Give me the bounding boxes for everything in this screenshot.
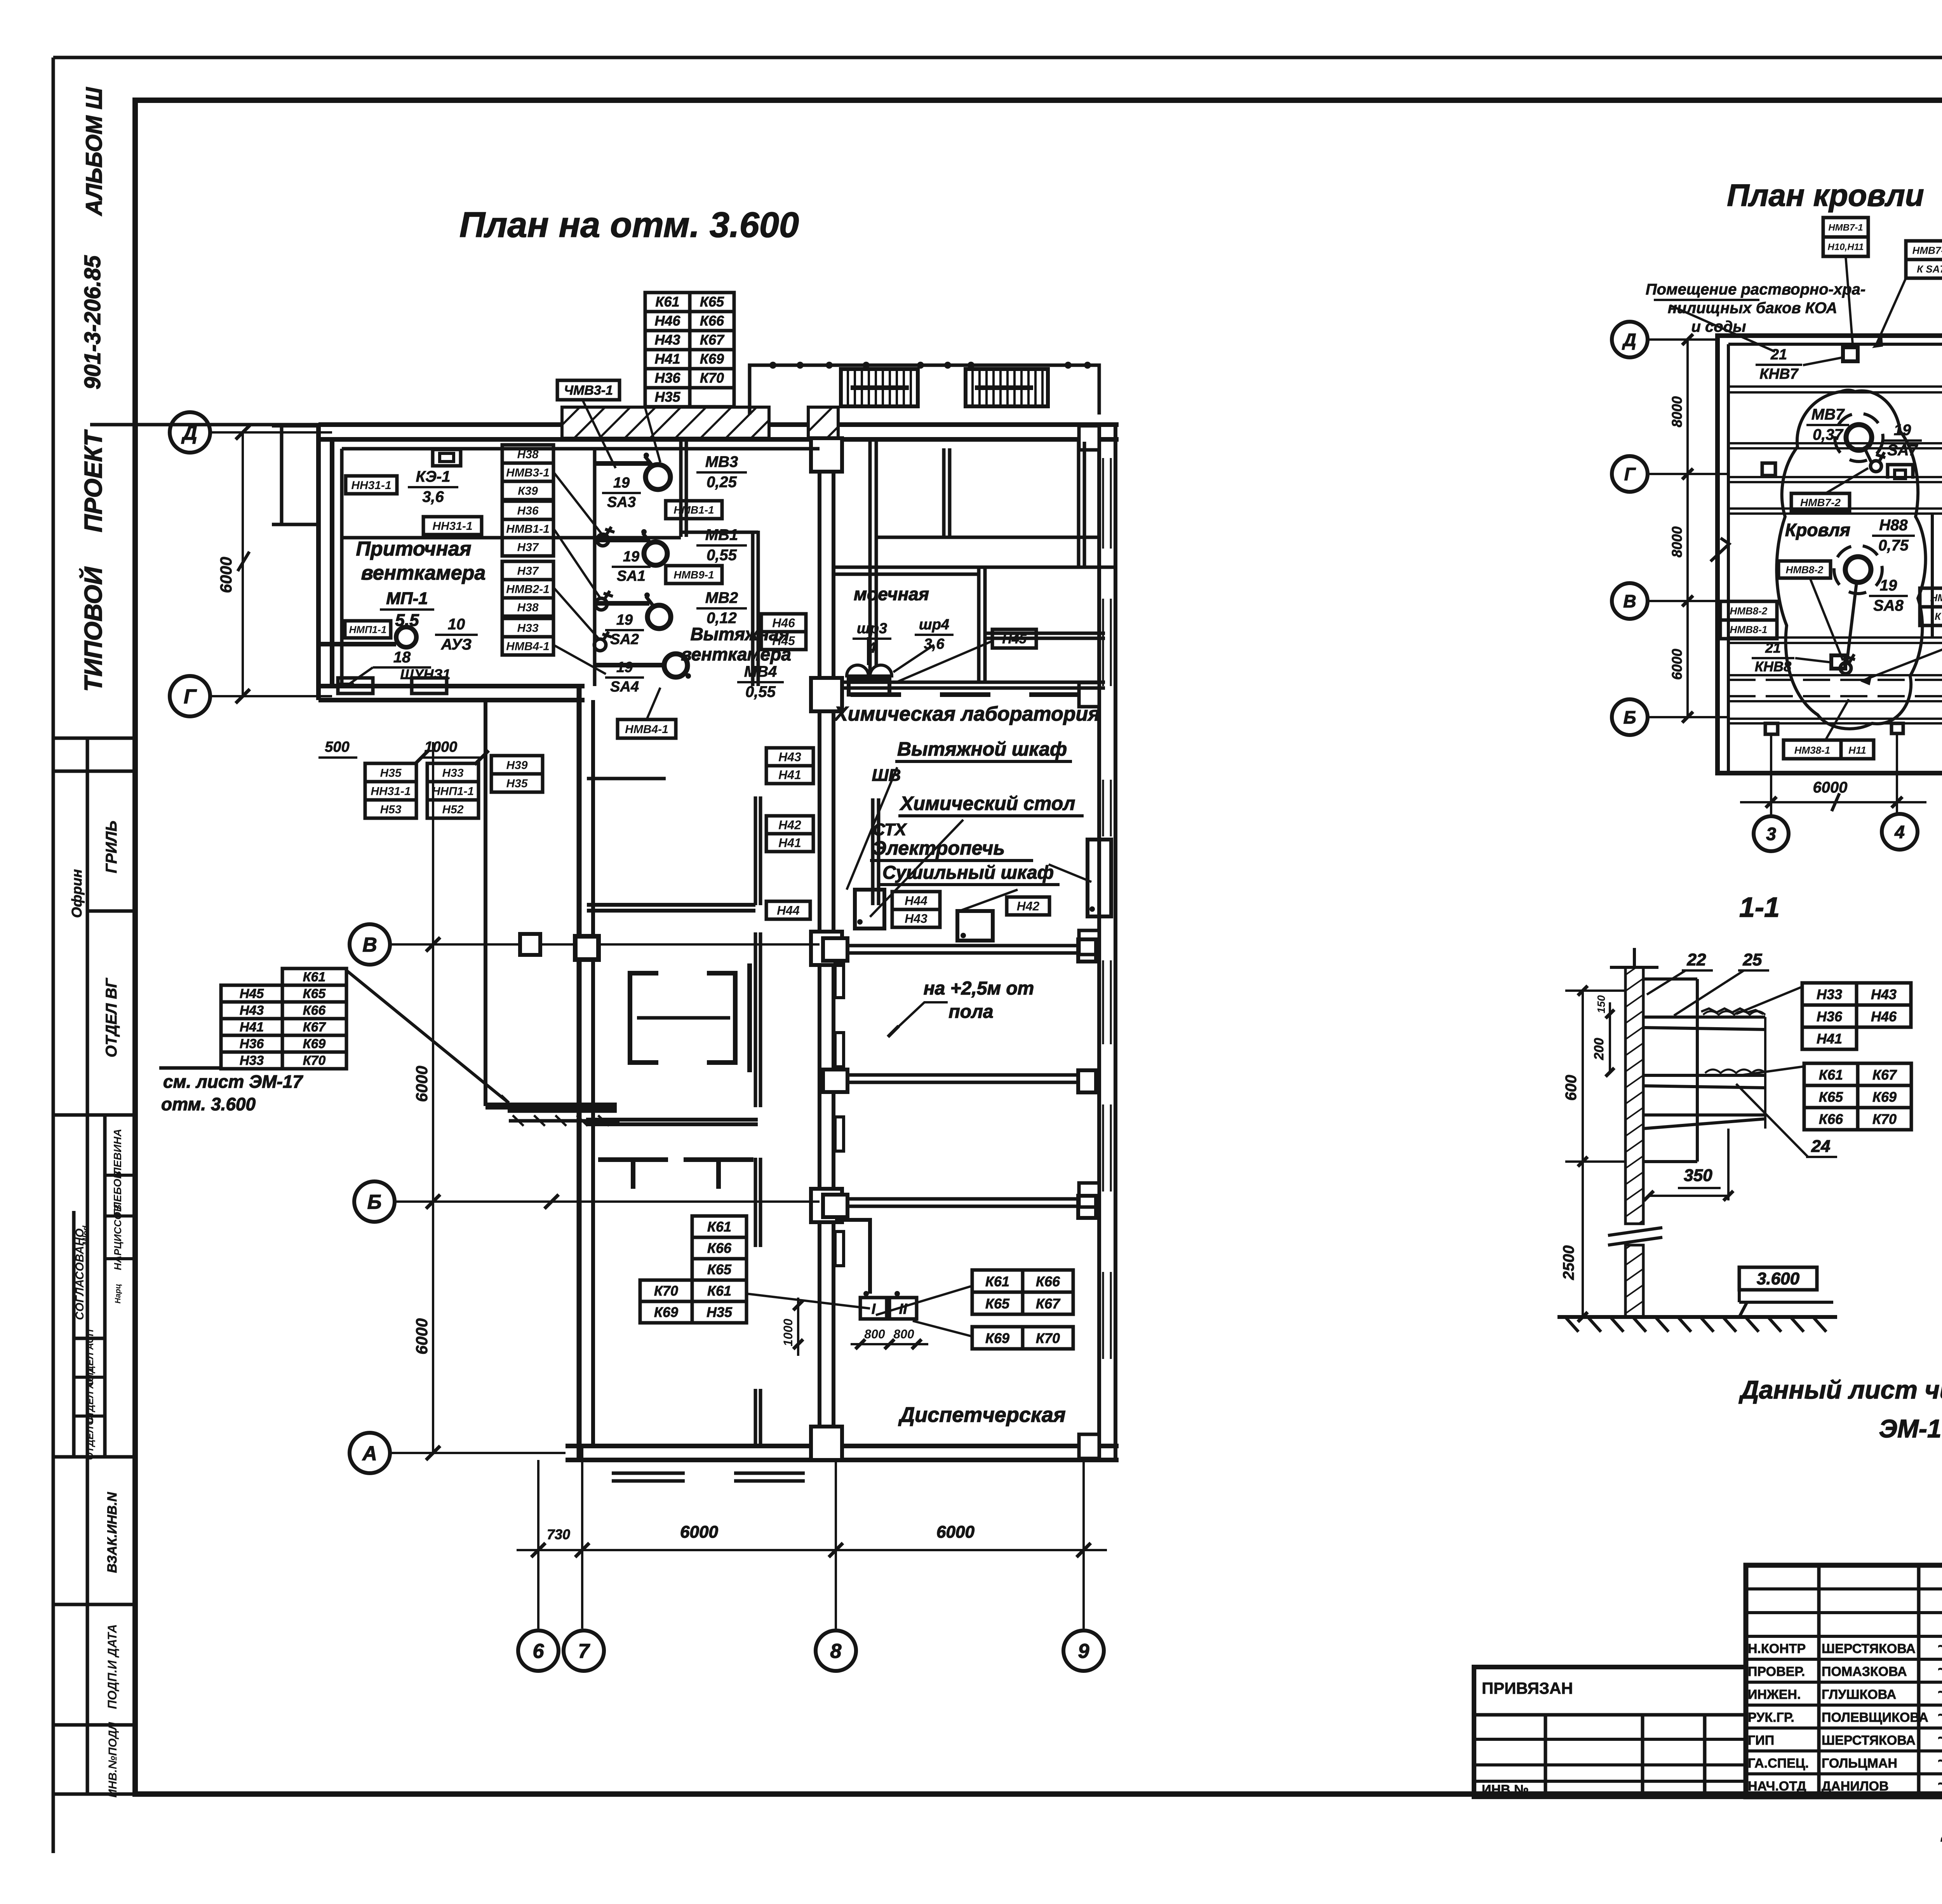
svg-text:~: ~: [1937, 1752, 1942, 1770]
label box НМВ9-1: [666, 566, 722, 584]
svg-text:ИНВ.№: ИНВ.№: [1482, 1782, 1529, 1797]
svg-text:Кровля: Кровля: [1785, 520, 1850, 540]
axis 3: [1754, 816, 1789, 851]
svg-text:К39: К39: [518, 484, 538, 497]
svg-text:Н37: Н37: [517, 564, 539, 577]
svg-text:К70: К70: [303, 1053, 326, 1068]
box НМ38-1 Н11: [1784, 740, 1841, 759]
vent room partition horizontal jog: [681, 531, 758, 534]
label box НМП1-1: [345, 621, 391, 638]
svg-text:шр3: шр3: [857, 620, 887, 637]
svg-text:Н33: Н33: [240, 1053, 264, 1068]
svg-text:ЩУНЗ1: ЩУНЗ1: [400, 666, 450, 682]
dim 1000 vertical: [797, 1298, 799, 1356]
svg-text:К70: К70: [1872, 1111, 1897, 1127]
vent room inner left wall: [593, 449, 597, 686]
left dim line Г-В-Б-А: [432, 742, 434, 1453]
svg-text:ПРИВЯЗАН: ПРИВЯЗАН: [1482, 1679, 1573, 1697]
svg-text:SA3: SA3: [607, 494, 636, 510]
door sill marks bottom wall: [612, 1472, 685, 1475]
svg-text:7: 7: [578, 1640, 590, 1663]
entry platform top-left: [280, 426, 284, 524]
svg-text:6000: 6000: [680, 1523, 718, 1542]
hatched wall section 1: [562, 407, 769, 438]
label box НМВ4-1: [618, 719, 676, 738]
svg-text:Н53: Н53: [380, 803, 401, 816]
title block left columns: [1817, 1565, 1821, 1797]
table Н33/ННП1-1/Н52: [427, 763, 479, 782]
svg-text:8: 8: [830, 1640, 842, 1663]
svg-text:НН31-1: НН31-1: [371, 785, 411, 798]
roof fan МВ8: [1845, 557, 1871, 582]
svg-text:SA8: SA8: [1873, 597, 1904, 614]
partition below K61 table: [586, 1118, 758, 1122]
svg-text:Н35: Н35: [506, 777, 528, 790]
svg-text:Н36: Н36: [1817, 1009, 1843, 1024]
table НМВ7-1/К SA7: [1906, 241, 1942, 260]
table Н39/Н35: [491, 756, 543, 774]
svg-text:Химическая лаборатория: Химическая лаборатория: [833, 703, 1100, 725]
svg-text:отм. 3.600: отм. 3.600: [161, 1094, 256, 1114]
right wall pilaster blocks: [1079, 426, 1099, 450]
svg-text:К61: К61: [1819, 1067, 1843, 1083]
svg-text:Н45: Н45: [240, 986, 264, 1001]
svg-text:19: 19: [1880, 577, 1897, 594]
svg-text:9: 9: [1078, 1640, 1089, 1663]
svg-text:Н.КОНТР: Н.КОНТР: [1748, 1641, 1806, 1656]
big cable table left: [282, 969, 346, 985]
svg-text:Помещение растворно-хра-: Помещение растворно-хра-: [1646, 281, 1865, 298]
svg-text:3.600: 3.600: [1757, 1269, 1800, 1288]
bottom axis verticals: [537, 1460, 539, 1629]
svg-text:КНВ7: КНВ7: [1759, 366, 1799, 382]
svg-text:Данный лист читать совместно с: Данный лист читать совместно с листами: [1738, 1375, 1942, 1404]
dim 200 150: [1609, 1002, 1611, 1072]
left wall lower: [577, 686, 582, 1460]
table К70/К61 К69/Н35: [640, 1280, 692, 1301]
cable run above plan: [750, 365, 1099, 415]
bell symbols: [847, 665, 868, 676]
roof vent shaft vertical: [1931, 514, 1934, 638]
svg-text:6000: 6000: [412, 1318, 431, 1354]
svg-text:2500: 2500: [1560, 1246, 1577, 1280]
svg-text:К66: К66: [1819, 1111, 1843, 1127]
furniture T marks lower: [598, 1157, 668, 1162]
roof fan МВ7: [1846, 425, 1872, 450]
svg-text:К66: К66: [700, 313, 724, 329]
svg-text:Н35: Н35: [380, 766, 402, 779]
svg-text:К69: К69: [303, 1036, 326, 1051]
svg-text:0,25: 0,25: [706, 474, 737, 491]
svg-text:НМВ4-1: НМВ4-1: [625, 723, 668, 736]
partition room моечная: [834, 566, 1115, 569]
svg-text:НН31-1: НН31-1: [351, 479, 391, 492]
svg-text:ИНВ.№ПОДЛ: ИНВ.№ПОДЛ: [106, 1721, 119, 1798]
outer sheet border: [53, 56, 1942, 59]
svg-text:6000: 6000: [1813, 779, 1848, 796]
svg-text:В: В: [1623, 591, 1636, 611]
svg-text:1000: 1000: [425, 739, 458, 755]
svg-text:К66: К66: [1036, 1273, 1060, 1289]
svg-text:Н41: Н41: [654, 351, 680, 367]
axis 7: [564, 1631, 604, 1671]
axis 8: [816, 1631, 856, 1671]
svg-text:350: 350: [1684, 1166, 1712, 1185]
roof bottom column ticks: [1765, 723, 1778, 734]
svg-text:~: ~: [1937, 1707, 1942, 1724]
svg-text:Нарц: Нарц: [114, 1284, 122, 1304]
svg-text:В: В: [362, 934, 377, 956]
label box НН31-1: [346, 476, 397, 494]
svg-text:3: 3: [1766, 824, 1776, 844]
svg-text:ПОЛЕВЩИКОВА: ПОЛЕВЩИКОВА: [1822, 1710, 1928, 1725]
svg-text:НМВ2-1: НМВ2-1: [506, 583, 550, 596]
cable shelf 2: [1643, 1074, 1765, 1077]
svg-text:Мled: Мled: [81, 1225, 90, 1245]
wall on axis Г: [318, 684, 585, 688]
svg-text:ИНЖЕН.: ИНЖЕН.: [1748, 1687, 1801, 1702]
svg-text:Диспетчерская: Диспетчерская: [898, 1403, 1065, 1427]
svg-text:19: 19: [616, 659, 633, 676]
section wall hatched: [1625, 967, 1643, 1224]
svg-text:МВ3: МВ3: [705, 453, 738, 470]
table НМВ8-1/К SA8: [1920, 588, 1942, 607]
svg-text:SA2: SA2: [610, 631, 639, 648]
svg-text:Электропечь: Электропечь: [872, 837, 1005, 859]
svg-text:НМП1-1: НМП1-1: [349, 624, 387, 635]
svg-text:Б: Б: [367, 1191, 382, 1214]
vent room partition vertical upper: [679, 439, 683, 537]
left strip ПОДП.И ДАТА: [53, 1723, 135, 1727]
label box НМВ7-2: [1791, 493, 1850, 511]
door jamb marks near corridor: [835, 963, 844, 998]
svg-text:Н43: Н43: [240, 1003, 264, 1018]
roof seam bands: [1728, 385, 1942, 388]
svg-text:Приточная: Приточная: [356, 538, 472, 560]
svg-text:4: 4: [1894, 822, 1905, 842]
svg-text:Н43: Н43: [905, 912, 927, 926]
svg-text:Сушильный шкаф: Сушильный шкаф: [882, 862, 1054, 883]
leader from table to wall: [346, 970, 509, 1103]
partition top-right room: [942, 448, 946, 537]
svg-text:24: 24: [1811, 1137, 1831, 1156]
svg-text:К65: К65: [1819, 1089, 1843, 1105]
svg-text:Н44: Н44: [777, 904, 800, 918]
shelf line top-right room: [876, 536, 1099, 539]
svg-text:I: I: [872, 1301, 876, 1317]
svg-text:АУЗ: АУЗ: [441, 636, 472, 653]
svg-text:Н39: Н39: [506, 759, 527, 772]
svg-text:Н52: Н52: [442, 803, 463, 816]
boxes I and II: [860, 1298, 887, 1319]
svg-text:600: 600: [1563, 1075, 1580, 1101]
svg-text:К69: К69: [985, 1330, 1009, 1346]
svg-text:21: 21: [1770, 347, 1787, 363]
svg-text:Н33: Н33: [442, 766, 463, 779]
svg-text:Н41: Н41: [778, 836, 801, 850]
svg-text:Н43: Н43: [654, 332, 680, 348]
leader lines from tables to switches: [553, 472, 603, 535]
svg-text:19: 19: [1894, 422, 1911, 439]
roof bottom dims: [1770, 734, 1772, 816]
cable table top: [645, 293, 690, 312]
partition upper middle room: [587, 777, 666, 780]
svg-text:РУК.ГР.: РУК.ГР.: [1748, 1710, 1794, 1725]
svg-text:НМВ8-2: НМВ8-2: [1730, 605, 1768, 617]
svg-text:SA1: SA1: [617, 568, 646, 584]
svg-text:6000: 6000: [217, 557, 235, 593]
svg-text:1-1: 1-1: [1739, 892, 1780, 923]
break marks on roof walls: [1711, 538, 1729, 561]
svg-text:0,37: 0,37: [1813, 426, 1844, 443]
svg-text:Н38: Н38: [517, 448, 538, 461]
right wall with windows: [1097, 425, 1101, 1460]
svg-text:Н42: Н42: [1017, 899, 1040, 913]
svg-text:КЭ-1: КЭ-1: [416, 468, 451, 485]
svg-text:Д: Д: [1622, 330, 1636, 350]
cable tray middle row: [847, 1073, 1078, 1077]
svg-text:~: ~: [1937, 1730, 1942, 1747]
svg-text:НМВ1-1: НМВ1-1: [506, 523, 550, 535]
svg-text:ОТДЕЛ ВГ: ОТДЕЛ ВГ: [103, 977, 120, 1057]
axis 4: [1882, 814, 1918, 850]
svg-text:Химический стол: Химический стол: [899, 793, 1075, 814]
svg-text:венткамера: венткамера: [361, 562, 486, 584]
svg-text:Н33: Н33: [1817, 986, 1842, 1002]
top wall: [318, 422, 1119, 427]
svg-text:НМВ3-1: НМВ3-1: [506, 466, 550, 479]
left dim line Д-Г: [242, 432, 244, 696]
svg-text:II: II: [899, 1301, 908, 1317]
table Н33/НМВ4-1: [502, 618, 553, 637]
svg-text:К61: К61: [985, 1273, 1009, 1289]
svg-text:НМВ1-1: НМВ1-1: [673, 504, 714, 516]
switch cabinet block on Г wall: [412, 678, 447, 693]
device стол rect: [957, 911, 993, 941]
svg-text:8000: 8000: [1669, 526, 1685, 557]
svg-text:К69: К69: [1872, 1089, 1897, 1105]
svg-text:К66: К66: [707, 1240, 732, 1256]
top wall face extension left: [90, 423, 318, 427]
svg-text:НАРЦИССОВ: НАРЦИССОВ: [112, 1204, 124, 1270]
svg-text:ГОЛЬЦМАН: ГОЛЬЦМАН: [1822, 1756, 1897, 1771]
svg-text:Н43: Н43: [778, 750, 801, 764]
svg-text:К67: К67: [303, 1020, 327, 1035]
device электропечь rect: [855, 890, 884, 928]
cable shelf 3 lower bracket: [1643, 1113, 1765, 1117]
svg-text:Н41: Н41: [778, 768, 801, 782]
svg-text:К65: К65: [707, 1261, 732, 1277]
svg-text:КНВ8: КНВ8: [1755, 658, 1791, 674]
vent room partition vertical lower: [751, 531, 755, 686]
label box Н45: [992, 629, 1036, 648]
svg-text:Н11: Н11: [1848, 744, 1866, 756]
axis В blocks: [520, 934, 540, 955]
dispatcher tables: [972, 1270, 1023, 1292]
svg-text:К66: К66: [303, 1003, 326, 1018]
svg-text:К70: К70: [1036, 1330, 1060, 1346]
svg-text:200: 200: [1592, 1038, 1606, 1061]
left strip СОГЛАСОВАНО block: [103, 1115, 107, 1457]
svg-text:6: 6: [533, 1640, 545, 1663]
axis Б: [354, 1181, 395, 1222]
svg-text:Г: Г: [1624, 464, 1636, 484]
table К61/К66/К65 lower: [692, 1216, 747, 1237]
svg-text:6000: 6000: [412, 1066, 431, 1102]
hatched wall section 2: [808, 407, 838, 438]
bottom wall axis А: [566, 1444, 1119, 1448]
wall right face line lower: [1643, 977, 1697, 981]
left wall upper: [316, 425, 321, 700]
table НМВ7-1/Н10,Н11: [1823, 218, 1868, 237]
svg-text:Д: Д: [181, 422, 197, 444]
svg-text:800: 800: [864, 1327, 885, 1341]
svg-text:НМВ4-1: НМВ4-1: [506, 640, 550, 653]
svg-text:SA4: SA4: [610, 679, 639, 695]
svg-text:10: 10: [448, 616, 465, 633]
svg-text:ЭМ-17, ЭМ-18, ЭМ-20.: ЭМ-17, ЭМ-18, ЭМ-20.: [1879, 1414, 1942, 1443]
svg-text:НМ38-1: НМ38-1: [1794, 744, 1830, 756]
lab bench at моечная: [985, 632, 1105, 635]
main corridor wall: [818, 439, 821, 1446]
svg-text:~: ~: [1937, 1684, 1942, 1701]
svg-text:ГЛУШКОВА: ГЛУШКОВА: [1822, 1687, 1896, 1702]
svg-text:ГА.СПЕЦ.: ГА.СПЕЦ.: [1748, 1756, 1809, 1771]
wall break marks: [1608, 1228, 1662, 1235]
svg-text:Б: Б: [1624, 707, 1636, 728]
svg-text:0,75: 0,75: [1878, 537, 1909, 554]
bottom dim line: [517, 1549, 1107, 1551]
cable drop in dispatcher room: [835, 1220, 870, 1294]
fan supply stubs: [595, 461, 651, 466]
svg-text:Н42: Н42: [778, 818, 801, 832]
svg-text:АЛЬБОМ Ш: АЛЬБОМ Ш: [82, 87, 107, 216]
roof switch SA7: [1871, 461, 1881, 472]
label box НН31-1: [423, 517, 482, 535]
svg-text:18: 18: [393, 649, 411, 666]
dim 800 800: [851, 1343, 928, 1345]
svg-text:К69: К69: [654, 1304, 678, 1320]
label box Н44: [766, 901, 810, 919]
svg-text:К61: К61: [707, 1283, 731, 1299]
svg-text:на +2,5м от: на +2,5м от: [924, 978, 1034, 999]
svg-text:К61: К61: [707, 1219, 731, 1235]
svg-text:НМВ9-1: НМВ9-1: [673, 569, 714, 581]
svg-text:ПРОВЕР.: ПРОВЕР.: [1748, 1664, 1805, 1679]
roof switch SA8: [1840, 663, 1851, 674]
svg-text:МВ4: МВ4: [744, 663, 777, 680]
axis Г: [170, 676, 210, 716]
svg-text:Н36: Н36: [517, 504, 538, 517]
svg-text:~: ~: [1937, 1775, 1942, 1793]
svg-text:800: 800: [893, 1327, 914, 1341]
svg-text:19: 19: [623, 549, 639, 565]
svg-text:0,55: 0,55: [706, 547, 737, 564]
svg-text:Н45: Н45: [1002, 632, 1027, 646]
svg-text:ДАНИЛОВ: ДАНИЛОВ: [1822, 1779, 1889, 1794]
leader lines lab: [847, 767, 897, 890]
svg-text:НАЧ.ОТД: НАЧ.ОТД: [1748, 1779, 1806, 1794]
svg-text:Н36: Н36: [654, 370, 680, 386]
label box ЧМВ3-1: [557, 380, 619, 400]
svg-text:МВ1: МВ1: [705, 526, 738, 544]
beam row on axis Г right part: [841, 681, 1105, 684]
svg-text:МП-1: МП-1: [386, 589, 428, 608]
svg-text:Н33: Н33: [517, 622, 538, 634]
label box НМВ8-2: [1778, 561, 1831, 578]
leaders to I/II boxes: [876, 1286, 972, 1315]
top ledge line: [1610, 966, 1658, 969]
svg-text:Н45: Н45: [772, 634, 795, 648]
svg-text:К67: К67: [700, 332, 725, 348]
svg-text:0,55: 0,55: [745, 683, 776, 700]
svg-text:А: А: [362, 1442, 377, 1465]
svg-text:150: 150: [1595, 995, 1607, 1013]
axis Г: [1612, 456, 1648, 492]
ground line: [1557, 1315, 1837, 1319]
svg-text:НМВ7-1: НМВ7-1: [1912, 244, 1942, 256]
svg-text:К61: К61: [303, 970, 326, 984]
svg-text:ГРИЛЬ: ГРИЛЬ: [103, 820, 120, 873]
svg-text:6000: 6000: [1669, 649, 1685, 680]
svg-text:см. лист ЭМ-17: см. лист ЭМ-17: [163, 1071, 303, 1092]
left strip table lines: [53, 737, 135, 740]
svg-text:500: 500: [325, 739, 349, 755]
svg-text:К61: К61: [655, 294, 679, 310]
svg-text:ГИП: ГИП: [1748, 1733, 1774, 1748]
svg-text:ВЗАК.ИНВ.N: ВЗАК.ИНВ.N: [105, 1492, 120, 1573]
stair grid 2: [966, 369, 1048, 406]
svg-text:~: ~: [1937, 1661, 1942, 1678]
svg-text:ШЕРСТЯКОВА: ШЕРСТЯКОВА: [1822, 1733, 1916, 1748]
table Н35/НН31-1/Н53: [365, 763, 416, 782]
svg-text:730: 730: [547, 1526, 570, 1542]
corridor wall column blocks: [811, 438, 842, 472]
cable tray row B axis: [847, 944, 1078, 948]
svg-text:3,6: 3,6: [422, 488, 444, 505]
svg-text:19: 19: [613, 475, 630, 491]
axis Д: [1612, 322, 1648, 357]
svg-text:НМВ8-2: НМВ8-2: [1786, 564, 1824, 575]
svg-text:К70: К70: [700, 370, 724, 386]
svg-text:НМВ7-1: НМВ7-1: [1828, 223, 1863, 233]
svg-text:Офрин: Офрин: [69, 869, 85, 918]
fan МП-1: [396, 627, 416, 647]
switches SA small circles: [597, 534, 609, 546]
table Н43/Н41: [766, 748, 813, 766]
small square marks roof: [1762, 463, 1775, 476]
svg-text:Н35: Н35: [706, 1304, 733, 1320]
svg-text:1000: 1000: [781, 1319, 795, 1346]
svg-text:ШЕРСТЯКОВА: ШЕРСТЯКОВА: [1822, 1641, 1916, 1656]
svg-text:Вытяжной шкаф: Вытяжной шкаф: [897, 738, 1067, 760]
axis 6: [518, 1631, 559, 1671]
svg-text:К65: К65: [700, 294, 724, 310]
svg-text:НМВ7-2: НМВ7-2: [1800, 496, 1841, 509]
svg-text:К70: К70: [654, 1283, 678, 1299]
table НМВ8-2/НМВ8-1: [1720, 601, 1777, 620]
section cable tables: [1802, 983, 1857, 1005]
svg-text:SA7: SA7: [1887, 442, 1918, 459]
cable tray row Б axis: [847, 1197, 1078, 1201]
svg-text:План кровли: План кровли: [1727, 178, 1924, 213]
svg-text:Н46: Н46: [654, 313, 680, 329]
svg-text:Н46: Н46: [772, 616, 795, 630]
svg-text:К69: К69: [700, 351, 724, 367]
svg-text:ПОМАЗКОВА: ПОМАЗКОВА: [1822, 1664, 1907, 1679]
svg-text:МВ7: МВ7: [1811, 406, 1845, 423]
dashed cable lines on roof: [1728, 679, 1942, 681]
